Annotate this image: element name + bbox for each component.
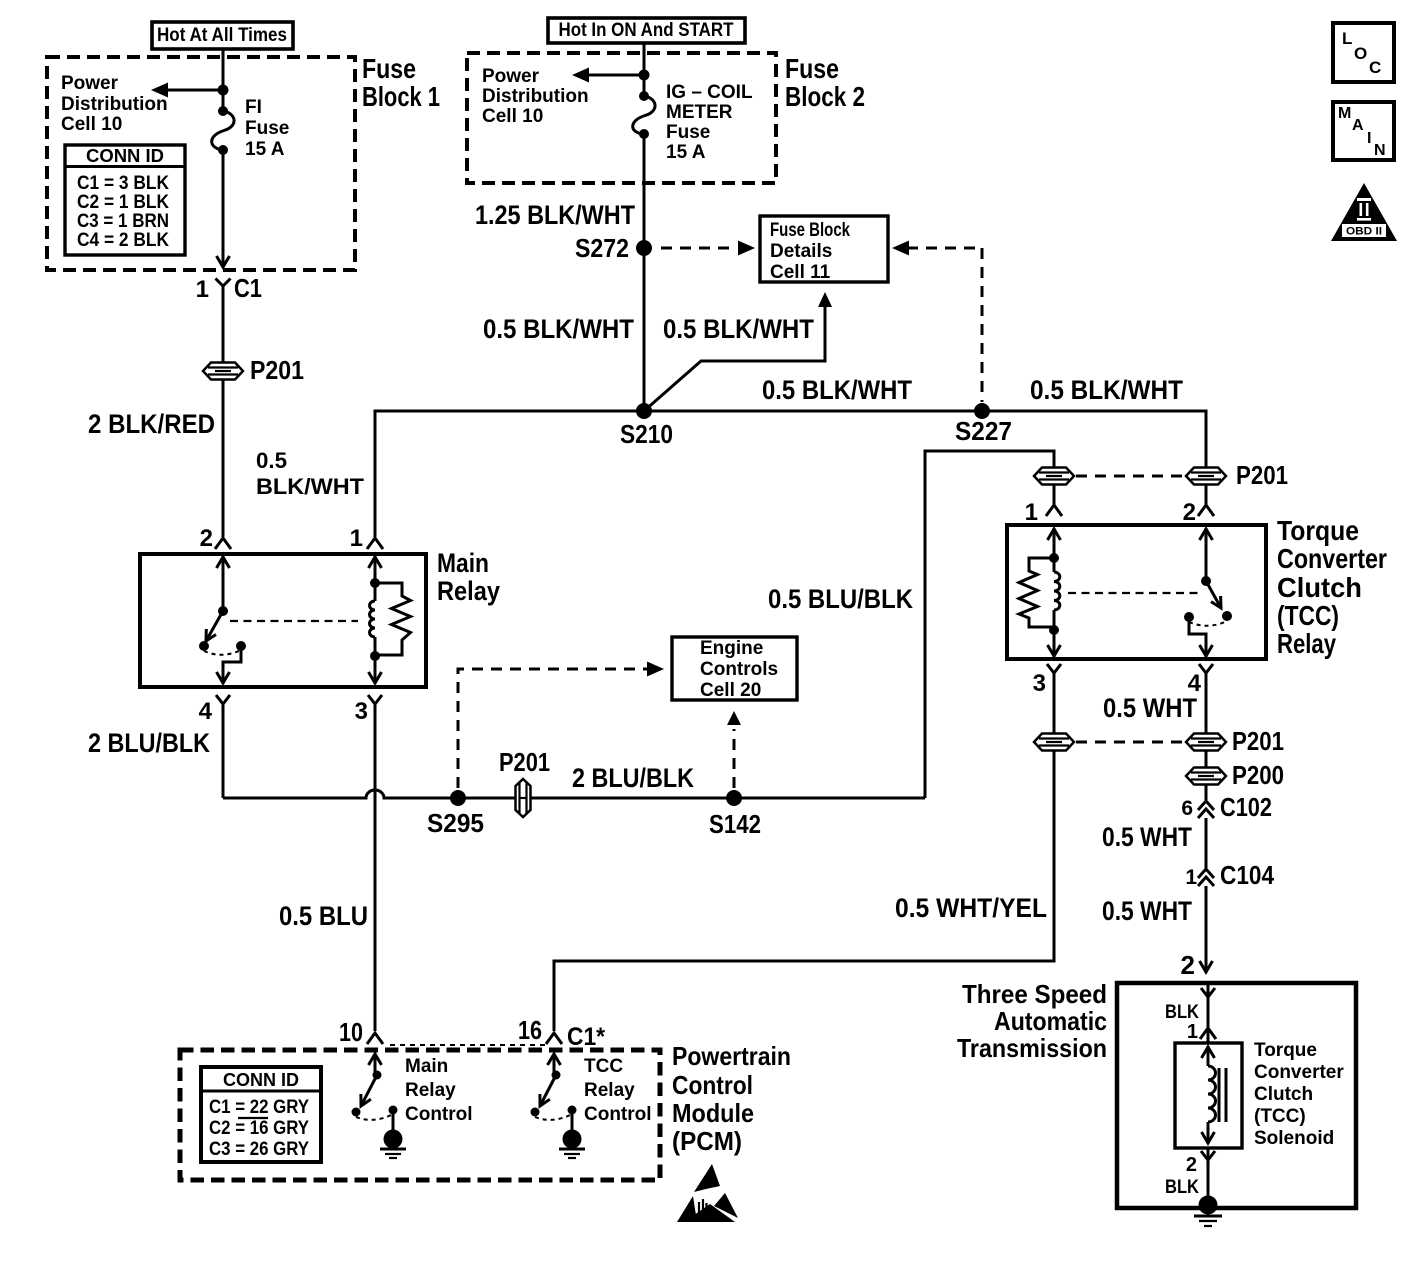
svg-text:Fuse: Fuse — [666, 122, 710, 143]
svg-text:0.5 WHT/YEL: 0.5 WHT/YEL — [895, 893, 1047, 923]
svg-text:Control: Control — [672, 1070, 753, 1100]
svg-text:0.5 BLK/WHT: 0.5 BLK/WHT — [483, 314, 634, 344]
svg-text:Transmission: Transmission — [957, 1033, 1107, 1063]
svg-text:C3 = 1 BRN: C3 = 1 BRN — [77, 211, 169, 232]
svg-text:Distribution: Distribution — [482, 86, 589, 107]
svg-text:C102: C102 — [1220, 792, 1272, 822]
svg-text:Powertrain: Powertrain — [672, 1041, 791, 1071]
svg-text:6: 6 — [1181, 797, 1193, 820]
svg-text:BLK: BLK — [1165, 1177, 1199, 1198]
svg-text:METER: METER — [666, 102, 733, 123]
svg-text:FI: FI — [245, 97, 262, 118]
svg-text:Torque: Torque — [1277, 515, 1359, 546]
svg-text:S295: S295 — [427, 808, 484, 838]
svg-text:M: M — [1338, 105, 1351, 122]
svg-text:2 BLU/BLK: 2 BLU/BLK — [572, 763, 694, 793]
svg-text:Relay: Relay — [584, 1080, 635, 1101]
svg-text:2: 2 — [1186, 1154, 1197, 1176]
svg-text:O: O — [1354, 44, 1367, 63]
svg-text:C2 = 1 BLK: C2 = 1 BLK — [77, 192, 169, 213]
svg-text:S142: S142 — [709, 809, 761, 839]
svg-text:Relay: Relay — [1277, 628, 1336, 659]
svg-text:Relay: Relay — [405, 1080, 456, 1101]
svg-text:OBD II: OBD II — [1346, 226, 1382, 238]
svg-text:2: 2 — [200, 525, 213, 552]
svg-text:C1*: C1* — [567, 1023, 605, 1051]
svg-text:Distribution: Distribution — [61, 94, 168, 115]
svg-text:(TCC): (TCC) — [1277, 600, 1339, 631]
svg-text:BLK: BLK — [1165, 1002, 1199, 1023]
svg-text:1: 1 — [1185, 866, 1197, 889]
svg-text:TCC: TCC — [584, 1056, 623, 1077]
svg-text:Details: Details — [770, 241, 832, 262]
svg-text:0.5 WHT: 0.5 WHT — [1103, 693, 1197, 723]
svg-text:1: 1 — [350, 525, 363, 552]
svg-text:C1 = 3 BLK: C1 = 3 BLK — [77, 173, 169, 194]
svg-text:L: L — [1342, 29, 1352, 48]
svg-text:Converter: Converter — [1277, 543, 1387, 574]
svg-text:Block 2: Block 2 — [785, 81, 865, 112]
svg-text:P201: P201 — [1236, 460, 1288, 490]
svg-text:Converter: Converter — [1254, 1062, 1344, 1083]
svg-text:1.25 BLK/WHT: 1.25 BLK/WHT — [475, 200, 635, 230]
svg-text:3: 3 — [355, 698, 368, 725]
svg-text:I: I — [1367, 130, 1371, 147]
svg-text:Relay: Relay — [437, 576, 500, 606]
svg-text:A: A — [1352, 117, 1364, 134]
svg-text:Control: Control — [405, 1104, 473, 1125]
svg-text:Block 1: Block 1 — [362, 81, 440, 112]
svg-text:C2 = 16 GRY: C2 = 16 GRY — [209, 1118, 309, 1139]
svg-text:C3 = 26 GRY: C3 = 26 GRY — [209, 1139, 309, 1160]
svg-text:CONN ID: CONN ID — [86, 146, 164, 166]
svg-text:0.5: 0.5 — [256, 448, 287, 473]
svg-text:Cell 11: Cell 11 — [770, 262, 831, 283]
svg-text:2 BLU/BLK: 2 BLU/BLK — [88, 728, 210, 758]
svg-text:Main: Main — [405, 1056, 448, 1077]
svg-text:CONN ID: CONN ID — [223, 1070, 299, 1090]
svg-text:C4 = 2 BLK: C4 = 2 BLK — [77, 230, 169, 251]
svg-text:Hot At All Times: Hot At All Times — [157, 25, 287, 46]
svg-text:P200: P200 — [1232, 760, 1284, 790]
svg-text:Main: Main — [437, 548, 489, 578]
svg-text:2 BLK/RED: 2 BLK/RED — [88, 409, 215, 439]
svg-text:P201: P201 — [499, 747, 550, 777]
svg-text:IG – COIL: IG – COIL — [666, 82, 753, 103]
svg-text:Fuse: Fuse — [362, 53, 416, 84]
svg-text:15 A: 15 A — [666, 142, 706, 163]
svg-text:P201: P201 — [250, 355, 304, 385]
svg-text:2: 2 — [1181, 950, 1195, 980]
svg-text:Clutch: Clutch — [1277, 572, 1362, 603]
svg-text:0.5 BLK/WHT: 0.5 BLK/WHT — [762, 375, 912, 405]
svg-text:3: 3 — [1033, 670, 1046, 697]
svg-text:Fuse: Fuse — [245, 118, 289, 139]
svg-text:Cell 10: Cell 10 — [482, 106, 543, 127]
svg-text:10: 10 — [339, 1017, 363, 1047]
svg-text:1: 1 — [1187, 1021, 1198, 1043]
svg-text:(TCC): (TCC) — [1254, 1106, 1306, 1127]
svg-text:(PCM): (PCM) — [672, 1126, 742, 1156]
svg-text:0.5 WHT: 0.5 WHT — [1102, 896, 1192, 926]
svg-text:Hot In ON And START: Hot In ON And START — [559, 20, 734, 41]
svg-text:1: 1 — [1025, 499, 1038, 526]
svg-text:Clutch: Clutch — [1254, 1084, 1313, 1105]
svg-text:2: 2 — [1183, 499, 1196, 526]
svg-text:15 A: 15 A — [245, 139, 285, 160]
svg-text:Cell 20: Cell 20 — [700, 680, 761, 701]
svg-text:C104: C104 — [1220, 860, 1274, 890]
svg-text:Power: Power — [482, 66, 540, 87]
svg-text:1: 1 — [196, 276, 209, 303]
svg-text:S210: S210 — [620, 419, 673, 449]
svg-text:Control: Control — [584, 1104, 652, 1125]
svg-text:16: 16 — [518, 1015, 542, 1045]
svg-text:0.5 BLU/BLK: 0.5 BLU/BLK — [768, 584, 913, 614]
svg-text:Three Speed: Three Speed — [962, 979, 1107, 1009]
svg-text:0.5 BLK/WHT: 0.5 BLK/WHT — [1030, 375, 1183, 405]
svg-text:0.5 BLU: 0.5 BLU — [279, 901, 368, 931]
svg-text:0.5 BLK/WHT: 0.5 BLK/WHT — [663, 314, 814, 344]
svg-text:S272: S272 — [575, 233, 629, 263]
svg-text:C1: C1 — [234, 273, 262, 303]
svg-text:Engine: Engine — [700, 638, 763, 659]
svg-text:Fuse Block: Fuse Block — [770, 220, 850, 241]
svg-text:Controls: Controls — [700, 659, 778, 680]
svg-text:Solenoid: Solenoid — [1254, 1128, 1334, 1149]
svg-text:Power: Power — [61, 73, 119, 94]
svg-text:N: N — [1374, 142, 1386, 159]
svg-text:BLK/WHT: BLK/WHT — [256, 474, 365, 499]
svg-text:0.5 WHT: 0.5 WHT — [1102, 822, 1192, 852]
svg-text:Cell 10: Cell 10 — [61, 114, 122, 135]
svg-text:Fuse: Fuse — [785, 53, 839, 84]
svg-text:Module: Module — [672, 1098, 754, 1128]
svg-text:Torque: Torque — [1254, 1040, 1317, 1061]
svg-text:S227: S227 — [955, 416, 1012, 446]
svg-text:P201: P201 — [1232, 726, 1284, 756]
svg-text:Automatic: Automatic — [994, 1006, 1107, 1036]
svg-text:C1 = 22 GRY: C1 = 22 GRY — [209, 1097, 309, 1118]
svg-text:C: C — [1369, 58, 1381, 77]
svg-text:4: 4 — [199, 698, 213, 725]
